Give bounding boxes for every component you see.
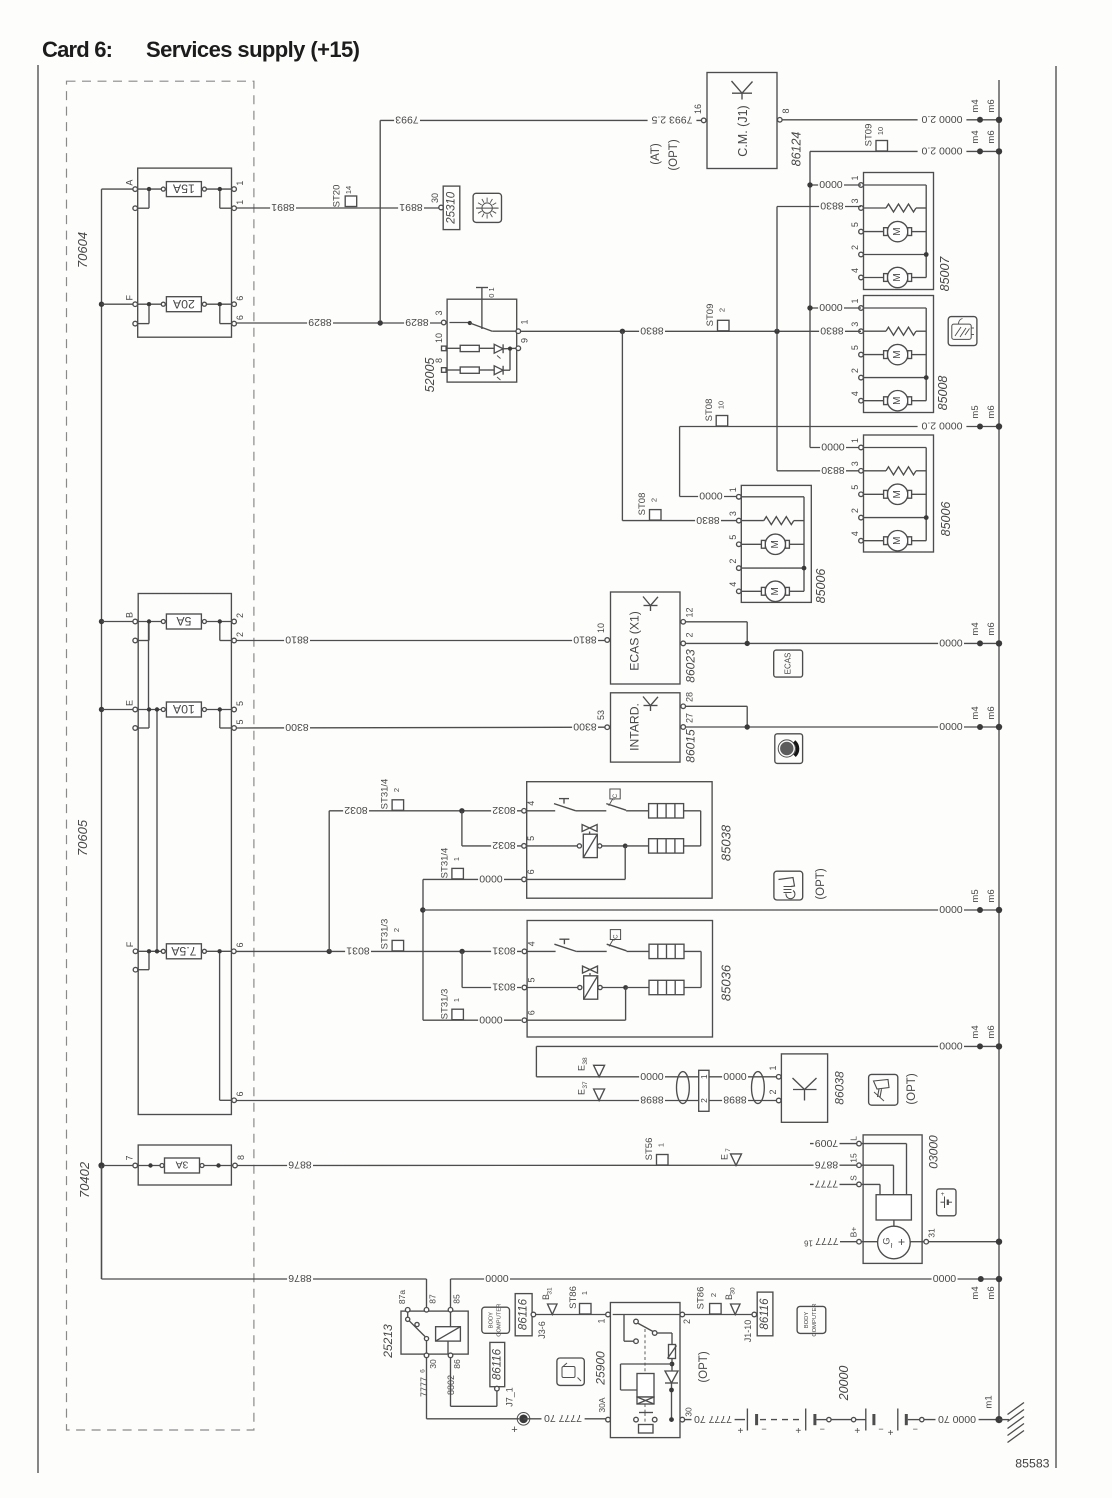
connector ST08/10 (704, 399, 728, 426)
svg-text:4: 4 (527, 941, 537, 946)
svg-text:Card 6:: Card 6: (42, 37, 113, 62)
wiper motor unit 85007 (850, 173, 952, 292)
wiper motor unit 85008 (850, 296, 950, 413)
wire B-to-E fuse link (148, 624, 150, 708)
svg-text:85008: 85008 (936, 376, 950, 411)
ground bus m6 x=999 (998, 80, 1000, 1420)
svg-text:20000: 20000 (837, 1366, 851, 1402)
svg-text:12: 12 (685, 607, 695, 617)
svg-text:2: 2 (682, 1319, 692, 1324)
svg-text:86116: 86116 (759, 1298, 771, 1330)
svg-text:m4: m4 (970, 130, 981, 143)
svg-text:M: M (892, 490, 903, 498)
svg-text:+: + (511, 1424, 517, 1436)
retarder icon (775, 734, 803, 764)
svg-text:−: − (820, 1424, 825, 1434)
connector ST08/2 (637, 493, 661, 520)
svg-text:2: 2 (850, 368, 860, 373)
svg-text:ST09: ST09 (705, 304, 716, 327)
svg-text:m4: m4 (970, 706, 981, 719)
page border right (1055, 66, 1057, 1468)
svg-text:3: 3 (850, 461, 860, 466)
svg-text:7777: 7777 (815, 1235, 839, 1247)
svg-text:0000 2.0: 0000 2.0 (921, 113, 962, 125)
battery 20000 cell 2 (795, 1409, 825, 1438)
svg-text:1: 1 (452, 857, 461, 861)
ECAS control unit 86023 (596, 592, 698, 684)
svg-text:2: 2 (718, 308, 727, 312)
svg-text:86116: 86116 (518, 1298, 530, 1330)
svg-text:0000: 0000 (939, 720, 963, 732)
fuse holder box 70402 (138, 1145, 231, 1185)
wire 8300 (236, 721, 604, 734)
svg-text:9: 9 (520, 338, 530, 343)
wire bus drop x=810 (810, 151, 859, 447)
connector ST86/1 (568, 1286, 591, 1314)
node E 10A tap (99, 707, 104, 712)
connector 86116 J3-6 (515, 1294, 547, 1339)
svg-text:ST31/4: ST31/4 (380, 779, 391, 810)
wire 8829 (236, 316, 443, 328)
svg-text:(AT): (AT) (650, 143, 662, 165)
svg-text:J3-6: J3-6 (537, 1321, 547, 1339)
wiper motor unit 85006 (left) (728, 485, 828, 603)
svg-text:8876: 8876 (815, 1158, 839, 1170)
svg-text:86124: 86124 (790, 132, 804, 167)
svg-text:+: + (854, 1426, 860, 1437)
svg-text:+: + (795, 1426, 801, 1437)
svg-text:4: 4 (850, 268, 860, 273)
svg-text:−: − (761, 1424, 766, 1434)
svg-text:8031: 8031 (346, 945, 370, 957)
svg-text:7993 2.5: 7993 2.5 (651, 114, 692, 126)
connector ST31/3-2 (380, 919, 404, 951)
svg-text:16: 16 (693, 104, 703, 114)
svg-text:86015: 86015 (684, 729, 698, 763)
label 0000 into 85006a (698, 490, 741, 502)
label 70604 (75, 232, 90, 268)
wire 7777/70 to 25900 (524, 1412, 606, 1424)
svg-text:0000: 0000 (699, 490, 723, 502)
svg-text:31: 31 (547, 1287, 554, 1295)
svg-text:8876: 8876 (288, 1159, 312, 1171)
svg-text:8830: 8830 (820, 325, 844, 337)
svg-text:1: 1 (850, 175, 860, 180)
svg-text:86023: 86023 (684, 649, 698, 683)
svg-text:A: A (125, 180, 135, 186)
heated mirror icon (948, 317, 977, 346)
svg-text:ST20: ST20 (332, 185, 343, 208)
svg-text:6: 6 (526, 869, 536, 874)
svg-text:30: 30 (428, 1359, 438, 1369)
svg-text:2: 2 (709, 1293, 718, 1297)
wire 8891 (236, 201, 438, 213)
svg-text:8: 8 (781, 108, 791, 113)
svg-text:5: 5 (526, 836, 536, 841)
svg-text:4: 4 (526, 801, 536, 806)
node 8830 85007 riser tap (774, 329, 779, 334)
svg-text:~: ~ (887, 1242, 898, 1248)
label 70402 (77, 1161, 92, 1198)
wire INTARD pin28 loop (686, 706, 748, 727)
svg-text:2: 2 (235, 613, 245, 618)
svg-text:15A: 15A (172, 182, 195, 196)
wire ground row C (680, 426, 999, 428)
svg-text:Services supply (+15): Services supply (+15) (146, 37, 360, 62)
fuse holder box 70605 (138, 594, 231, 1115)
svg-text:m6: m6 (986, 889, 997, 902)
svg-text:0000: 0000 (939, 903, 963, 915)
svg-text:8031: 8031 (492, 945, 516, 957)
pin 30 of 25310 (430, 193, 443, 210)
svg-text:20A: 20A (172, 297, 195, 311)
wire E-to-F fuse link (155, 707, 159, 953)
relay 25900 (594, 1303, 694, 1438)
svg-text:0 1: 0 1 (487, 287, 496, 297)
svg-text:3: 3 (434, 310, 444, 315)
ground-point E7 (720, 1148, 742, 1166)
svg-text:ST31/3: ST31/3 (440, 989, 451, 1020)
svg-text:8829: 8829 (308, 316, 332, 328)
wire 8031 (236, 945, 521, 957)
label 86124 (790, 132, 804, 167)
page border left (37, 65, 39, 1473)
svg-text:+: + (737, 1426, 743, 1437)
ground-point E38 (577, 1057, 605, 1077)
svg-text:8300: 8300 (285, 721, 309, 733)
label 20000 (837, 1366, 851, 1402)
label (AT)(OPT) (650, 139, 680, 170)
battery positive node + (511, 1413, 530, 1437)
svg-text:70604: 70604 (75, 232, 90, 268)
ground row E (686, 706, 1003, 732)
svg-text:7777: 7777 (419, 1377, 429, 1397)
svg-text:COMPUTER: COMPUTER (497, 1304, 503, 1337)
svg-text:M: M (770, 587, 781, 595)
svg-text:7009: 7009 (815, 1137, 839, 1149)
sheet number 85583 (1015, 1457, 1049, 1471)
svg-text:m5: m5 (970, 889, 981, 902)
timer 25310 (443, 186, 460, 230)
pin 16 (693, 104, 706, 123)
wire 8032 (329, 804, 521, 951)
ECAS icon (774, 650, 803, 677)
svg-text:m6: m6 (986, 99, 997, 112)
svg-text:2: 2 (768, 1089, 778, 1094)
ignition switch 52005 (423, 287, 530, 392)
svg-text:5: 5 (728, 535, 738, 540)
svg-text:2: 2 (392, 928, 401, 932)
wire 8830 to ST08/2 row (622, 331, 736, 526)
node 8830/ST08 tap (620, 329, 625, 334)
svg-text:3: 3 (850, 198, 860, 203)
svg-text:0000: 0000 (821, 441, 845, 453)
title (42, 37, 360, 62)
label (OPT) 86038 (906, 1073, 918, 1104)
wire 0000 drop to E38 row (536, 1046, 776, 1076)
connector ST56/1 (644, 1138, 668, 1165)
svg-text:3: 3 (728, 511, 738, 516)
svg-text:85: 85 (452, 1294, 462, 1304)
wire 0000 to 85007 pin1 (807, 178, 861, 190)
svg-text:(OPT): (OPT) (906, 1073, 918, 1104)
svg-text:6: 6 (527, 1010, 537, 1015)
node 7993 tap (378, 320, 383, 325)
connector block 1/2 (699, 1070, 709, 1111)
svg-text:M: M (892, 537, 903, 545)
svg-text:M: M (892, 350, 903, 358)
svg-text:1: 1 (728, 487, 738, 492)
wire 8876 lower (101, 1166, 103, 1280)
svg-text:(OPT): (OPT) (698, 1351, 710, 1382)
svg-text:30: 30 (430, 193, 440, 203)
svg-text:7: 7 (125, 1155, 135, 1160)
heater unit 85036 (522, 921, 733, 1038)
label (OPT) heater (815, 868, 827, 899)
svg-text:5: 5 (235, 719, 245, 724)
svg-text:M: M (892, 397, 903, 405)
svg-text:8031: 8031 (492, 981, 516, 993)
svg-text:m4: m4 (970, 99, 981, 112)
svg-text:1: 1 (520, 319, 530, 324)
svg-text:(OPT): (OPT) (668, 139, 680, 170)
battery 20000 cell 3 (854, 1409, 883, 1438)
svg-text:M: M (892, 227, 903, 235)
heat tool icon (869, 1074, 898, 1105)
wire 0000 to 85006b pin1 (820, 441, 846, 453)
wire 7777 S stub (810, 1178, 857, 1190)
svg-text:28: 28 (685, 692, 695, 702)
svg-text:70402: 70402 (77, 1161, 92, 1198)
svg-text:C.M. (J1): C.M. (J1) (736, 105, 750, 156)
svg-text:1: 1 (580, 1291, 589, 1295)
svg-text:BODY: BODY (489, 1312, 495, 1329)
svg-text:0000: 0000 (939, 637, 963, 649)
svg-text:7: 7 (725, 1148, 732, 1152)
svg-text:m6: m6 (986, 706, 997, 719)
svg-text:0000: 0000 (939, 1040, 963, 1052)
svg-text:−: − (878, 1424, 883, 1434)
ground-point B30 (724, 1287, 740, 1314)
svg-text:8891: 8891 (271, 201, 295, 213)
svg-text:ECAS: ECAS (784, 653, 793, 675)
svg-text:6: 6 (235, 315, 245, 320)
svg-text:25900: 25900 (594, 1351, 608, 1386)
connector ST86/2 (696, 1287, 722, 1314)
svg-text:J7_1: J7_1 (505, 1387, 515, 1407)
svg-text:5: 5 (235, 701, 245, 706)
aux heater icon (774, 871, 803, 900)
svg-text:2: 2 (850, 508, 860, 513)
svg-text:10: 10 (596, 623, 606, 633)
fuse 3A (70402) (104, 1155, 247, 1173)
svg-text:5A: 5A (176, 614, 192, 628)
wire riser 85 (450, 1279, 452, 1308)
wire 8830 to 85007 pin3 (777, 200, 861, 212)
body computer connector 86116 J7_1 (490, 1342, 515, 1406)
wire 7777/6 from pin30 (419, 1358, 519, 1419)
svg-text:10: 10 (876, 127, 885, 135)
svg-text:87a: 87a (397, 1290, 407, 1304)
svg-text:m4: m4 (970, 1286, 981, 1299)
node 3A tap (98, 1162, 104, 1168)
svg-text:ST56: ST56 (644, 1138, 655, 1161)
svg-text:1: 1 (699, 1074, 709, 1079)
svg-text:m6: m6 (986, 622, 997, 635)
svg-text:87: 87 (428, 1294, 438, 1304)
svg-text:8891: 8891 (399, 201, 423, 213)
solar sensor icon (473, 193, 501, 222)
svg-text:25310: 25310 (446, 191, 458, 225)
labels m4 m6 row A (970, 99, 997, 112)
svg-text:ST86: ST86 (568, 1286, 579, 1309)
svg-text:0000: 0000 (723, 1070, 747, 1082)
svg-text:70605: 70605 (75, 819, 90, 856)
chassis ground (999, 1403, 1024, 1443)
svg-text:16: 16 (804, 1239, 813, 1248)
svg-text:m1: m1 (984, 1395, 995, 1408)
svg-text:ST09: ST09 (864, 124, 875, 147)
svg-text:E: E (577, 1089, 587, 1095)
wire 8810 (236, 634, 604, 646)
fuse holder box 70604 (138, 168, 232, 337)
fuse 5A (70605/B) (102, 612, 246, 643)
wiper motor unit 85006 (right) (850, 435, 953, 552)
svg-text:m6: m6 (986, 1025, 997, 1038)
svg-text:5: 5 (527, 977, 537, 982)
svg-text:03000: 03000 (927, 1135, 941, 1169)
svg-text:8830: 8830 (820, 200, 844, 212)
ground-point E37 (577, 1081, 605, 1100)
svg-text:ST08: ST08 (704, 399, 715, 422)
node heater ground (420, 907, 425, 912)
wire riser to 85006b pin3 (777, 333, 859, 471)
svg-text:COMPUTER: COMPUTER (812, 1303, 818, 1336)
svg-text:B+: B+ (849, 1227, 859, 1238)
wire 8876 upper (237, 1158, 856, 1170)
svg-text:53: 53 (596, 710, 606, 720)
svg-text:1: 1 (235, 200, 245, 205)
svg-text:8300: 8300 (573, 721, 597, 733)
control module C.M. (J1) 86124 (707, 73, 777, 169)
svg-text:30A: 30A (597, 1397, 607, 1412)
svg-text:2: 2 (650, 498, 659, 502)
svg-text:8830: 8830 (821, 464, 845, 476)
svg-text:1: 1 (850, 298, 860, 303)
connector oval 1 (677, 1072, 690, 1104)
fuse 7.5A (70605/F) (125, 941, 245, 972)
svg-text:4: 4 (728, 582, 738, 587)
wire 8898 (236, 1094, 776, 1106)
svg-text:1: 1 (235, 181, 245, 186)
ground row B 0000 2.0 (918, 130, 1003, 156)
svg-text:0000: 0000 (485, 1272, 509, 1284)
svg-text:30: 30 (730, 1287, 737, 1295)
svg-text:B: B (125, 612, 135, 618)
ground-point B31 (541, 1287, 557, 1314)
wire 8802 from pin86 (446, 1358, 497, 1407)
svg-text:7777: 7777 (815, 1178, 839, 1190)
svg-text:1: 1 (657, 1143, 666, 1147)
ground row H (451, 1272, 1003, 1299)
svg-text:8810: 8810 (285, 634, 309, 646)
svg-text:86116: 86116 (491, 1348, 503, 1380)
wire to ST86/2 (685, 1314, 752, 1316)
svg-text:8829: 8829 (405, 316, 429, 328)
svg-text:3A: 3A (176, 1159, 189, 1171)
svg-text:+: + (888, 1428, 894, 1439)
connector ST09/2 (705, 304, 729, 331)
wire riser to 85007 pin3 (776, 207, 778, 332)
wire 8031 to pin5 (462, 951, 521, 992)
svg-text:27: 27 (685, 713, 695, 723)
svg-text:2: 2 (699, 1098, 709, 1103)
svg-text:8830: 8830 (640, 325, 664, 337)
svg-text:8032: 8032 (492, 804, 516, 816)
fuse panel dashed enclosure 70604/70605/70402 (67, 81, 254, 1430)
junction box 86038 (768, 1054, 847, 1122)
svg-text:38: 38 (582, 1057, 589, 1065)
wire 8032 to pin5 (462, 811, 521, 851)
svg-text:S: S (849, 1175, 859, 1181)
BODY COMPUTER box 1 (482, 1304, 510, 1337)
svg-text:1: 1 (597, 1318, 607, 1323)
svg-text:2: 2 (685, 632, 695, 637)
svg-text:52005: 52005 (423, 358, 437, 393)
connector ST31/4-2 (380, 779, 404, 811)
svg-text:E: E (720, 1154, 730, 1160)
svg-text:86: 86 (452, 1359, 462, 1369)
svg-text:6: 6 (235, 942, 245, 947)
svg-text:8898: 8898 (640, 1094, 664, 1106)
svg-text:0000: 0000 (933, 1272, 957, 1284)
svg-text:0000: 0000 (819, 301, 843, 313)
wire pin31 to bus (929, 1239, 1003, 1245)
wire 7993 (380, 114, 701, 321)
svg-text:10A: 10A (172, 702, 195, 716)
svg-text:5: 5 (850, 345, 860, 350)
wire 0000 to 85036 pin6 (423, 1013, 521, 1025)
connector ST20/14 (332, 185, 357, 208)
connector ST31/3-1 (440, 989, 464, 1020)
wire 7777/70 battery feed (685, 1413, 745, 1425)
svg-text:6: 6 (235, 1091, 245, 1096)
svg-text:0000: 0000 (819, 178, 843, 190)
svg-text:E: E (577, 1065, 587, 1071)
wire 7.5A to pin6 8898 link (220, 953, 245, 1102)
ground row F (423, 889, 1002, 915)
labels 0000/8898 row (639, 1070, 748, 1082)
svg-text:−: − (913, 1424, 918, 1434)
node 8032 pin5 tap (459, 808, 464, 813)
svg-text:1: 1 (850, 438, 860, 443)
svg-text:1: 1 (452, 998, 461, 1002)
wire 7009 stub (810, 1137, 857, 1149)
wire 8830 main row (521, 325, 861, 337)
svg-text:7777 70: 7777 70 (694, 1413, 732, 1425)
svg-text:0000: 0000 (479, 873, 503, 885)
svg-text:7993: 7993 (395, 114, 419, 126)
svg-text:M: M (892, 273, 903, 281)
wire ECAS pin12 loop (686, 622, 748, 644)
wire drop to 85006a pin1 (680, 427, 736, 497)
label 70605 (75, 819, 90, 856)
svg-text:m4: m4 (970, 1025, 981, 1038)
svg-text:ST31/4: ST31/4 (440, 848, 451, 879)
svg-text:85006: 85006 (814, 569, 828, 604)
svg-text:m6: m6 (986, 1286, 997, 1299)
svg-text:F: F (125, 941, 135, 947)
